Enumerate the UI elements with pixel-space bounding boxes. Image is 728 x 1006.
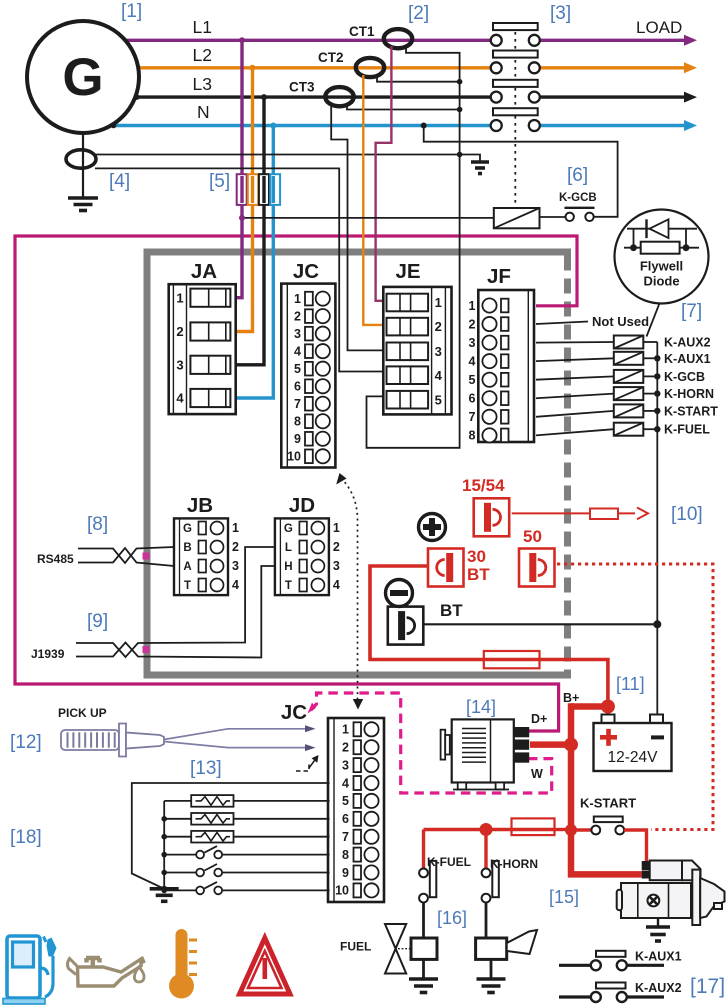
svg-text:10: 10 (287, 450, 301, 464)
svg-text:30: 30 (467, 547, 486, 566)
svg-text:2: 2 (294, 309, 301, 323)
svg-text:3: 3 (232, 559, 239, 573)
svg-text:[16]: [16] (437, 908, 467, 928)
svg-text:[5]: [5] (209, 171, 230, 192)
svg-text:2: 2 (176, 324, 183, 339)
svg-text:4: 4 (435, 368, 443, 383)
svg-text:9: 9 (342, 866, 349, 880)
svg-text:[11]: [11] (616, 674, 645, 694)
svg-text:15/54: 15/54 (462, 476, 505, 495)
svg-text:[2]: [2] (408, 3, 429, 24)
svg-text:5: 5 (469, 373, 476, 387)
svg-text:3: 3 (342, 758, 349, 772)
svg-text:8: 8 (342, 848, 349, 862)
svg-text:[17]: [17] (690, 975, 725, 998)
svg-text:50: 50 (523, 527, 542, 546)
svg-text:A: A (183, 561, 191, 573)
svg-text:[3]: [3] (550, 3, 571, 24)
svg-text:K-FUEL: K-FUEL (427, 855, 471, 869)
svg-text:10: 10 (335, 884, 349, 898)
svg-text:7: 7 (342, 830, 349, 844)
svg-text:[4]: [4] (109, 171, 130, 192)
svg-text:[8]: [8] (87, 514, 108, 535)
svg-text:3: 3 (176, 357, 183, 372)
svg-text:G: G (62, 48, 103, 107)
svg-text:D+: D+ (531, 712, 547, 726)
svg-text:7: 7 (469, 410, 476, 424)
svg-text:T: T (285, 580, 292, 592)
svg-text:1: 1 (294, 292, 301, 306)
svg-text:4: 4 (342, 776, 349, 790)
svg-text:L: L (285, 542, 292, 554)
svg-text:5: 5 (294, 362, 301, 376)
svg-text:K-FUEL: K-FUEL (664, 423, 710, 437)
svg-text:JD: JD (289, 494, 315, 517)
svg-text:6: 6 (294, 380, 301, 394)
svg-text:2: 2 (232, 540, 239, 554)
svg-text:1: 1 (342, 723, 349, 737)
svg-text:B+: B+ (563, 691, 579, 705)
svg-text:N: N (197, 102, 210, 122)
svg-text:CT2: CT2 (318, 50, 344, 65)
svg-text:1: 1 (469, 299, 476, 313)
svg-text:6: 6 (342, 812, 349, 826)
svg-text:5: 5 (435, 392, 442, 407)
svg-text:JA: JA (191, 260, 217, 283)
svg-text:JE: JE (395, 260, 420, 283)
svg-text:T: T (184, 580, 191, 592)
svg-text:K-AUX2: K-AUX2 (635, 981, 682, 995)
svg-text:CT1: CT1 (349, 24, 375, 39)
svg-text:[18]: [18] (10, 827, 42, 848)
svg-text:L3: L3 (193, 74, 212, 94)
svg-text:2: 2 (469, 317, 476, 331)
svg-text:3: 3 (435, 344, 442, 359)
svg-text:1: 1 (435, 295, 442, 310)
svg-text:12-24V: 12-24V (608, 749, 659, 766)
svg-text:[14]: [14] (466, 697, 496, 717)
svg-text:K-AUX2: K-AUX2 (664, 336, 711, 350)
svg-text:2: 2 (333, 540, 340, 554)
svg-text:3: 3 (333, 559, 340, 573)
svg-text:BT: BT (467, 565, 490, 584)
svg-text:JC: JC (281, 701, 307, 724)
svg-text:LOAD: LOAD (636, 18, 682, 37)
svg-text:K-AUX1: K-AUX1 (664, 352, 711, 366)
svg-text:K-AUX1: K-AUX1 (635, 949, 682, 963)
svg-text:[9]: [9] (87, 611, 108, 632)
svg-text:G: G (183, 523, 192, 535)
svg-text:Flywell: Flywell (640, 259, 683, 274)
svg-text:4: 4 (333, 578, 340, 592)
svg-text:JB: JB (187, 494, 213, 517)
svg-text:K-HORN: K-HORN (490, 857, 538, 871)
svg-text:FUEL: FUEL (340, 940, 371, 954)
svg-text:K-GCB: K-GCB (664, 370, 705, 384)
svg-text:CT3: CT3 (289, 80, 315, 95)
svg-text:2: 2 (435, 319, 442, 334)
svg-text:BT: BT (440, 601, 463, 620)
svg-text:1: 1 (232, 521, 239, 535)
svg-text:K-START: K-START (580, 796, 636, 811)
svg-text:8: 8 (469, 429, 476, 443)
svg-text:6: 6 (469, 392, 476, 406)
svg-text:1: 1 (333, 521, 340, 535)
svg-text:[15]: [15] (549, 887, 579, 907)
svg-text:4: 4 (232, 578, 239, 592)
svg-text:H: H (284, 561, 292, 573)
svg-text:[6]: [6] (567, 165, 588, 186)
svg-text:L2: L2 (193, 45, 212, 65)
svg-text:RS485: RS485 (37, 552, 74, 566)
svg-text:G: G (284, 523, 293, 535)
svg-text:3: 3 (469, 336, 476, 350)
svg-text:1: 1 (176, 290, 183, 305)
svg-text:9: 9 (294, 432, 301, 446)
svg-text:5: 5 (342, 794, 349, 808)
svg-text:JC: JC (293, 260, 319, 283)
svg-text:J1939: J1939 (31, 647, 65, 661)
svg-text:[1]: [1] (121, 1, 142, 22)
svg-text:[13]: [13] (190, 758, 222, 779)
svg-text:PICK UP: PICK UP (58, 706, 107, 720)
svg-text:2: 2 (342, 741, 349, 755)
svg-text:L1: L1 (193, 17, 212, 37)
svg-text:[7]: [7] (681, 301, 702, 322)
svg-text:JF: JF (487, 265, 511, 288)
svg-text:4: 4 (469, 354, 476, 368)
svg-text:4: 4 (176, 391, 184, 406)
svg-text:3: 3 (294, 327, 301, 341)
svg-text:K-GCB: K-GCB (559, 192, 597, 204)
svg-text:Diode: Diode (643, 274, 679, 289)
svg-text:W: W (531, 767, 543, 781)
svg-text:4: 4 (294, 344, 301, 358)
svg-text:8: 8 (294, 415, 301, 429)
svg-text:[10]: [10] (671, 504, 703, 525)
svg-text:K-START: K-START (664, 404, 718, 418)
svg-text:Not Used: Not Used (592, 314, 649, 329)
svg-text:[12]: [12] (10, 732, 42, 753)
svg-text:K-HORN: K-HORN (664, 387, 714, 401)
svg-text:7: 7 (294, 397, 301, 411)
svg-text:B: B (183, 542, 191, 554)
